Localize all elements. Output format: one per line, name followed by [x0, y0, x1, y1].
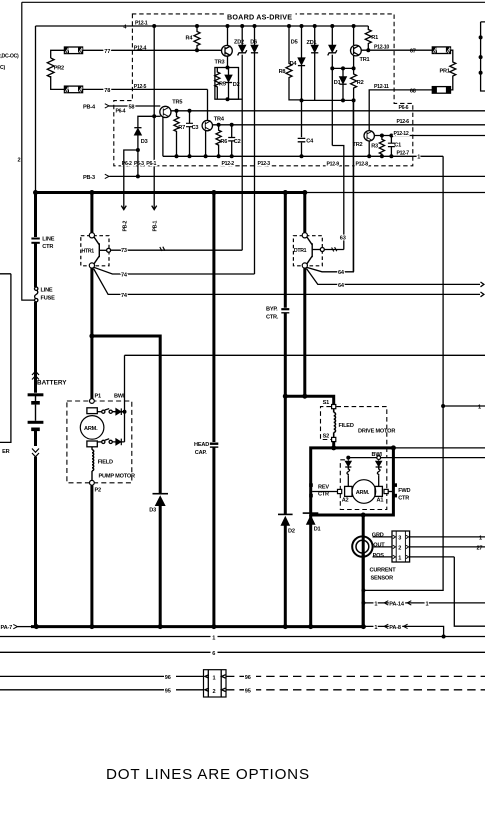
- FWD CTR contact nubs: [393, 483, 397, 487]
- svg-text:FIELD: FIELD: [98, 459, 113, 465]
- svg-text:D5: D5: [291, 40, 298, 46]
- resistor R8: [286, 26, 292, 100]
- wire P12-7 "1" down right side: [363, 156, 443, 590]
- svg-text:3: 3: [398, 536, 401, 542]
- svg-text:1: 1: [374, 625, 377, 631]
- node P12-7 wire to sensor line: [361, 588, 365, 592]
- svg-text:R5: R5: [219, 82, 226, 88]
- sensor wire OUT: [374, 546, 392, 548]
- pump ARM brush top: [87, 408, 97, 414]
- svg-text:CTR: CTR: [42, 244, 53, 250]
- resistor PR2 with connector boxes, wires 77/78: [51, 50, 65, 58]
- wire box top edge extension right: [393, 447, 485, 449]
- svg-text:P12-6: P12-6: [397, 119, 410, 125]
- svg-text:96: 96: [245, 675, 251, 681]
- resistor R2: [351, 68, 357, 100]
- svg-text:1: 1: [374, 601, 377, 607]
- svg-text:C1: C1: [394, 142, 401, 148]
- wire 95 left: [0, 689, 204, 691]
- svg-text:P12-12: P12-12: [394, 131, 409, 137]
- terminal A1: [384, 489, 388, 493]
- wire BWI feed (to right edge): [125, 354, 485, 356]
- svg-text:63: 63: [340, 236, 346, 242]
- svg-text:ZD2: ZD2: [234, 40, 244, 46]
- svg-text:PA-8: PA-8: [389, 625, 401, 631]
- svg-text:73: 73: [121, 248, 127, 254]
- diode D3 (P6 box): [138, 116, 154, 176]
- resistor R4: [194, 26, 200, 50]
- connector box 67: [432, 47, 450, 54]
- svg-text:C): C): [0, 65, 5, 71]
- svg-text:P2: P2: [95, 487, 102, 493]
- node bus junction: [33, 190, 38, 195]
- wire 74 upper: [94, 267, 255, 274]
- pump motor dashed box: [67, 401, 132, 483]
- svg-text:PUMP MOTOR: PUMP MOTOR: [99, 474, 135, 480]
- svg-text:R1: R1: [371, 35, 378, 41]
- wire drive motor bottom to current sensor (thick): [362, 515, 365, 627]
- drive motor contactor box (thick): [311, 448, 394, 515]
- current sensor connector box: [392, 531, 410, 562]
- connector box 68: [432, 87, 450, 94]
- wire bus thin extension to right edge: [305, 192, 485, 194]
- svg-text:2: 2: [18, 158, 21, 164]
- wire B node (ZD1/D1/TR1 emitter): [332, 67, 353, 69]
- terminal S1: [332, 405, 336, 409]
- connector box 78: [64, 86, 82, 93]
- svg-text:R6: R6: [220, 139, 227, 145]
- svg-text:1: 1: [479, 535, 482, 541]
- wire ZD1 jog to P12-9: [332, 146, 344, 250]
- title BOARD AS-DRIVE: [226, 11, 296, 20]
- svg-text:D6: D6: [250, 40, 257, 46]
- transistor TR1: [351, 45, 362, 56]
- wire BWI drop to pump: [124, 355, 126, 411]
- svg-text:95: 95: [245, 689, 251, 695]
- wire P12-12 (TR2 base to right edge): [374, 135, 485, 137]
- svg-text:58: 58: [129, 105, 135, 111]
- svg-text:GRD: GRD: [372, 533, 384, 539]
- svg-text:P12-8: P12-8: [356, 161, 369, 167]
- wire P6-6 (to right edge): [190, 110, 485, 112]
- wire main positive bus (thick): [36, 191, 306, 194]
- svg-text:R,DC-OC): R,DC-OC): [0, 54, 19, 60]
- svg-text:C2: C2: [234, 139, 241, 145]
- svg-text:TR3: TR3: [215, 59, 225, 65]
- wire 95 right (dashed option): [226, 689, 485, 691]
- svg-text:6: 6: [212, 651, 215, 657]
- terminal S2: [332, 437, 336, 441]
- svg-text:R2: R2: [357, 80, 364, 86]
- svg-text:95: 95: [165, 689, 171, 695]
- wire 77 / P12-4 to TR3 base: [83, 49, 222, 51]
- svg-text:BOARD AS-DRIVE: BOARD AS-DRIVE: [227, 13, 292, 22]
- resistor PR1: [450, 50, 456, 90]
- svg-text:POS: POS: [373, 553, 385, 559]
- svg-text:2: 2: [213, 689, 216, 695]
- wire D3 branch (thick): [92, 336, 160, 493]
- svg-text:68: 68: [410, 88, 416, 94]
- resistor R7: [174, 111, 179, 157]
- svg-text:DRIVE MOTOR: DRIVE MOTOR: [358, 428, 395, 434]
- svg-text:P12-9: P12-9: [327, 161, 340, 167]
- svg-text:PB-2: PB-2: [122, 220, 128, 231]
- capacitor BYP CTR: [284, 193, 287, 308]
- pump FIELD coil: [91, 447, 93, 450]
- svg-text:P12-5: P12-5: [134, 84, 147, 90]
- wire PB-3: [109, 175, 485, 177]
- wire battery to PA-7 bus: [34, 457, 37, 627]
- wire 64 upper: [306, 100, 353, 272]
- drive BWI diode right: [376, 460, 382, 467]
- svg-text:PB-3: PB-3: [83, 175, 95, 181]
- board AS-DRIVE dashed outline: [114, 14, 413, 166]
- svg-text:OUT: OUT: [373, 543, 385, 549]
- svg-text:REV: REV: [318, 484, 329, 490]
- connector box 96/95: [204, 670, 227, 697]
- wire 64 lower: [306, 269, 480, 285]
- svg-text:P6-3: P6-3: [134, 161, 144, 167]
- svg-text:DOT LINES ARE OPTIONS: DOT LINES ARE OPTIONS: [106, 766, 310, 783]
- svg-text:P12-10: P12-10: [374, 44, 389, 50]
- svg-text:D1: D1: [314, 527, 321, 533]
- capacitor C1: [390, 136, 392, 157]
- pump BWI contact row 1: [97, 411, 101, 413]
- svg-text:67: 67: [410, 49, 416, 55]
- svg-text:TR2: TR2: [353, 142, 363, 148]
- wire HTR1 column top (thick): [90, 193, 93, 234]
- contactor HTR1: [81, 236, 109, 266]
- capacitor C3: [189, 111, 191, 157]
- diode D6: [254, 26, 256, 274]
- svg-text:BWI: BWI: [114, 393, 125, 399]
- svg-text:PB-1: PB-1: [153, 220, 159, 231]
- wire HTR1 to pump (thick): [90, 268, 93, 401]
- wire 73 to ZD2/P12-2: [111, 249, 243, 251]
- wire 63 (P12-9 to DTR1 base): [324, 249, 344, 251]
- svg-text:SENSOR: SENSOR: [371, 576, 394, 582]
- diode D3 (main): [153, 493, 169, 495]
- wire 78 / P12-5 to TR4 collector: [83, 88, 208, 90]
- connector box hatches: [65, 48, 69, 54]
- wire left rail x=21.5: [22, 2, 35, 300]
- svg-text:P12-7: P12-7: [397, 151, 410, 157]
- svg-text:TR1: TR1: [360, 57, 370, 63]
- motor ARM (drive): [352, 480, 376, 504]
- svg-text:P12-2: P12-2: [222, 161, 235, 167]
- svg-text:TR4: TR4: [214, 116, 225, 122]
- svg-text:CTR.: CTR.: [266, 315, 279, 321]
- svg-text:R3: R3: [371, 144, 378, 150]
- svg-text:D1: D1: [334, 80, 341, 86]
- svg-text:A2: A2: [342, 497, 349, 503]
- wire 4 to P12-1: [36, 25, 155, 27]
- wire 1 (full width): [0, 636, 485, 638]
- wire TR5 right to R7/C3: [171, 110, 190, 112]
- svg-text:P12-4: P12-4: [134, 46, 147, 52]
- wire board bottom bus: [163, 155, 443, 157]
- wire R5/D2 box to ZD2 line: [228, 98, 243, 100]
- svg-text:1: 1: [426, 601, 429, 607]
- svg-text:D4: D4: [290, 61, 298, 67]
- svg-text:1: 1: [478, 405, 481, 411]
- node P12-1 junction: [152, 24, 156, 28]
- battery cell 1: [28, 393, 44, 396]
- wire 6 (full width): [0, 651, 485, 653]
- wire P12-1 drop to TR5 region and PB-1: [153, 26, 155, 209]
- svg-text:C3: C3: [192, 125, 199, 131]
- wire top rail: [22, 1, 485, 3]
- resistor R5: [215, 68, 220, 100]
- svg-text:PA-14: PA-14: [389, 601, 405, 607]
- box R5/D2: [215, 68, 239, 100]
- battery chevrons up: [32, 371, 39, 379]
- transistor TR5: [160, 106, 171, 117]
- wire PA-14: [363, 602, 485, 604]
- diode D2 (main): [278, 513, 293, 515]
- REV CTR contact nubs: [309, 483, 313, 487]
- terminal P1: [90, 399, 95, 404]
- wire A (R8 to R2 node): [290, 99, 354, 102]
- svg-text:PR1: PR1: [440, 69, 450, 75]
- svg-text:LINE: LINE: [41, 287, 53, 293]
- svg-text:LINE: LINE: [42, 236, 54, 242]
- svg-text:P12-11: P12-11: [374, 84, 389, 90]
- fuse LINE FUSE: [35, 287, 38, 290]
- wire PA-8: [363, 626, 443, 636]
- terminal A2: [338, 489, 342, 493]
- transistor TR3: [222, 45, 233, 56]
- wire PA-7 bus (thick): [18, 626, 32, 628]
- svg-text:P12-3: P12-3: [258, 161, 271, 167]
- svg-text:ARM.: ARM.: [356, 490, 370, 496]
- svg-text:27: 27: [477, 546, 483, 552]
- svg-text:78: 78: [104, 88, 110, 94]
- contactor DTR1: [303, 193, 306, 234]
- label 1- at right edge (P12-7 branch): [441, 404, 445, 408]
- drive FIELD coil: [333, 409, 335, 413]
- svg-text:S1: S1: [323, 400, 330, 406]
- svg-text:FILED: FILED: [339, 423, 354, 429]
- svg-text:D2: D2: [233, 82, 240, 88]
- crossover hash on 73: [160, 247, 165, 251]
- diode D4 + capacitor C4 line: [301, 26, 303, 156]
- svg-text:1: 1: [212, 635, 215, 641]
- diode D1 (board): [342, 68, 344, 100]
- wire battery rail top (thin): [35, 26, 37, 193]
- svg-text:P1: P1: [95, 393, 102, 399]
- svg-text:ZD1: ZD1: [307, 40, 317, 46]
- sensor wire POS: [373, 556, 393, 558]
- svg-text:R8: R8: [279, 69, 286, 75]
- svg-text:R4: R4: [186, 35, 194, 41]
- pump ARM brush bottom: [87, 441, 97, 447]
- diode D5: [314, 26, 316, 100]
- capacitor LINE CTR: [34, 193, 37, 238]
- wire DTR1 to drive motor (thick): [303, 268, 306, 397]
- resistor R3: [379, 136, 384, 157]
- svg-text:CURRENT: CURRENT: [370, 568, 397, 574]
- transistor TR4: [202, 120, 212, 130]
- wire P12-6 (TR4 base to right edge): [212, 124, 485, 126]
- svg-text:PB-4: PB-4: [83, 104, 96, 110]
- wire POS down to lower-right wire: [454, 557, 485, 626]
- current sensor toroid: [352, 536, 372, 556]
- svg-text:D2: D2: [288, 529, 295, 535]
- svg-text:BYP.: BYP.: [266, 307, 278, 313]
- wire 74 lower: [94, 269, 481, 295]
- svg-text:P6-4: P6-4: [116, 109, 126, 115]
- wire battery rail to battery: [34, 302, 37, 393]
- wire DTR1 to S1 (thick): [285, 396, 333, 404]
- terminal P2: [90, 480, 95, 485]
- drive brush left: [345, 486, 352, 496]
- svg-text:CTR: CTR: [318, 492, 329, 498]
- svg-text:1: 1: [398, 556, 401, 562]
- svg-text:77: 77: [104, 49, 110, 55]
- svg-text:D3: D3: [149, 508, 156, 514]
- sensor wire GRD: [373, 536, 393, 538]
- svg-text:TR5: TR5: [172, 100, 182, 106]
- wire P6-2 branch: [124, 150, 138, 209]
- svg-text:ARM.: ARM.: [84, 426, 98, 432]
- svg-text:C4: C4: [306, 139, 314, 145]
- battery cell 2: [28, 421, 44, 424]
- drive BWI diode left: [345, 460, 351, 467]
- pump BWI contact row 2: [97, 441, 101, 443]
- svg-text:FWD: FWD: [398, 488, 410, 494]
- wire P2 to PA-7 bus (thick): [90, 485, 93, 626]
- svg-text:HTR1: HTR1: [82, 249, 95, 255]
- motor ARM (pump): [80, 416, 104, 440]
- svg-text:BATTERY: BATTERY: [37, 380, 67, 387]
- wire 96 left: [0, 675, 204, 677]
- zener ZD2: [241, 26, 243, 250]
- resistor R1: [365, 26, 371, 50]
- svg-text:2: 2: [398, 546, 401, 552]
- svg-text:FUSE: FUSE: [41, 295, 56, 301]
- svg-text:P6-6: P6-6: [399, 105, 409, 111]
- arrow PB-2: [121, 206, 126, 210]
- label BWI (drive): [371, 450, 384, 456]
- wire P12-8 drop (R2 node to 64 wire): [353, 100, 355, 271]
- zener ZD1: [331, 26, 333, 146]
- drive motor dashed box upper: [321, 407, 332, 440]
- wire BWI (drive) to right edge: [377, 456, 381, 460]
- diode D2 (board): [228, 68, 230, 100]
- svg-text:CAP.: CAP.: [195, 450, 207, 456]
- drive brush right: [375, 486, 382, 496]
- svg-text:A1: A1: [377, 497, 384, 503]
- svg-text:DTR1: DTR1: [294, 248, 307, 254]
- wire P12-10 / 67: [361, 49, 432, 51]
- right edge box with node dots: [481, 22, 485, 91]
- svg-text:CTR: CTR: [398, 495, 409, 501]
- arrow PB-1: [152, 206, 157, 210]
- transistor TR2: [364, 131, 374, 141]
- svg-text:ER: ER: [2, 449, 10, 455]
- resistor R6: [216, 125, 221, 157]
- svg-text:1: 1: [213, 675, 216, 681]
- wire 68 / P12-11 to TR2: [369, 90, 432, 131]
- capacitor C4: [298, 138, 306, 141]
- svg-text:R7: R7: [178, 125, 185, 131]
- svg-text:96: 96: [165, 675, 171, 681]
- wire REV CTR to PA-7 bus + diode D1 (main): [309, 515, 312, 627]
- svg-text:P12-1: P12-1: [135, 21, 148, 27]
- svg-text:D3: D3: [141, 139, 148, 145]
- svg-text:PA-7: PA-7: [1, 625, 13, 631]
- wire head cap column (thick): [212, 193, 215, 443]
- connector box 77: [64, 47, 82, 54]
- svg-text:PR2: PR2: [54, 66, 64, 72]
- capacitor HEAD CAP: [210, 443, 218, 445]
- capacitor C2: [231, 125, 233, 157]
- wire board top bus: [154, 25, 368, 27]
- svg-text:S2: S2: [323, 434, 330, 440]
- wire 96 right (dashed option): [226, 675, 485, 677]
- svg-text:HEAD: HEAD: [194, 442, 209, 448]
- battery chevrons down: [32, 449, 39, 457]
- svg-text:1: 1: [417, 154, 420, 160]
- charger box (cut off at left edge): [0, 274, 11, 443]
- crossover hash on DTR1 base: [332, 247, 337, 251]
- svg-text:P6-1: P6-1: [146, 161, 156, 167]
